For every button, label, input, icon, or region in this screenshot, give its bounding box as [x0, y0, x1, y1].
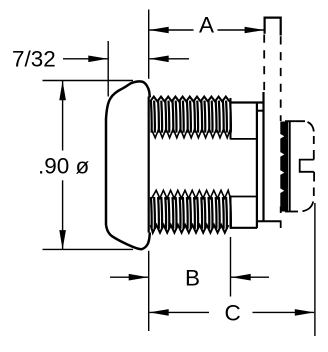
stop washer right vertical: [262, 92, 264, 222]
nut bottom-right corner arc (dashed): [303, 202, 314, 212]
svg-text:7/32: 7/32: [12, 47, 56, 72]
nut / knob outline (hidden, dashed): [285, 120, 305, 122]
cam right edge (hidden, dashed): [280, 36, 282, 121]
extension line nut right, bottom: [314, 203, 316, 336]
threaded barrel: top crest zigzag: [150, 97, 229, 102]
nut left edge vertical: [289, 122, 291, 212]
nut screwdriver slot: [300, 160, 314, 172]
dim B left arrow line: [110, 276, 148, 278]
nut right edge upper dashes: [313, 136, 315, 160]
cam top tab (solid): [265, 18, 281, 36]
svg-text:B: B: [185, 266, 200, 291]
rear cylinder inner line upper: [231, 138, 258, 140]
cam right edge lower dash: [280, 207, 282, 229]
dim C right line: [253, 311, 315, 313]
head/barrel junction line: [148, 97, 150, 233]
arrowhead .90 down: [59, 230, 66, 250]
7/32 right arrow line: [149, 58, 189, 60]
dia .90 top tangent line: [43, 80, 134, 82]
stop washer top connector: [257, 110, 264, 112]
arrowhead B right: [231, 274, 251, 281]
dia .90 vertical line lower: [62, 180, 64, 249]
dim A right line: [218, 29, 264, 31]
dim C left line: [149, 311, 209, 313]
nut right edge lower dashes: [313, 172, 315, 196]
cam bottom edge line: [257, 220, 281, 222]
rear cylinder end vertical: [256, 103, 258, 229]
arrowhead C left: [149, 309, 169, 316]
lock head (dome cap) left+top outline: [106, 81, 150, 225]
threaded barrel: top thread flanks: [151, 101, 231, 133]
dia .90 bottom tangent line: [43, 248, 134, 250]
nut bottom edge: [285, 211, 298, 213]
7/32 left arrow line: [63, 58, 108, 60]
cam left edge (hidden, dashed): [263, 35, 265, 93]
hidden thread column (stud inside nut): [280, 122, 288, 212]
threaded barrel: bottom crest zigzag: [151, 225, 229, 233]
extension line head left edge (7/32): [107, 41, 109, 97]
threaded barrel: bottom thread flanks: [151, 197, 231, 229]
lock head bottom outline: [106, 225, 150, 249]
arrowhead 7/32 right: [149, 56, 169, 63]
arrowhead A left: [149, 27, 169, 34]
rear cylinder inner line lower: [231, 196, 258, 198]
extension line barrel start, bottom: [148, 251, 150, 331]
extension line barrel start, top: [148, 10, 150, 79]
svg-text:.90 ø: .90 ø: [38, 154, 90, 179]
arrowhead .90 up: [59, 81, 66, 101]
dia .90 vertical line upper: [62, 81, 64, 151]
extension line thread end, bottom: [230, 237, 232, 297]
thread end vertical (top band): [230, 98, 232, 140]
svg-text:C: C: [225, 301, 241, 326]
threaded barrel: bottom root zigzag: [152, 190, 231, 198]
arrowhead 7/32 left: [88, 56, 108, 63]
arrowhead B left: [129, 274, 149, 281]
dim A left line: [149, 29, 193, 31]
thread end vertical (bottom band): [230, 196, 232, 229]
nut top-right corner arc (dashed): [308, 122, 314, 132]
svg-text:A: A: [199, 13, 214, 38]
arrowhead A right: [245, 27, 265, 34]
arrowhead C right: [295, 309, 315, 316]
rear cylinder top edge: [231, 101, 264, 103]
rear cylinder bottom edge: [231, 227, 258, 229]
threaded barrel: top root zigzag: [151, 129, 230, 138]
dim B right arrow line: [231, 276, 269, 278]
